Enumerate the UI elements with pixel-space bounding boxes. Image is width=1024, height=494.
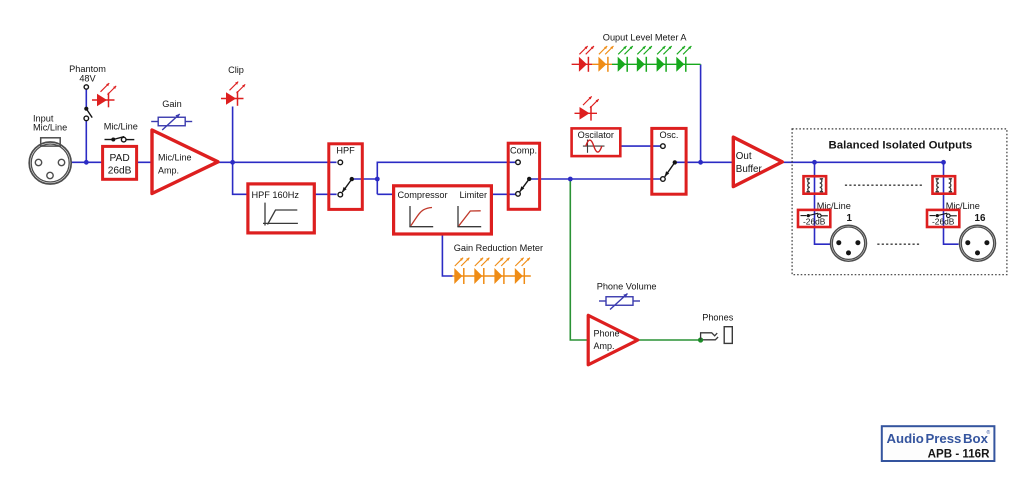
svg-text:Balanced Isolated Outputs: Balanced Isolated Outputs <box>829 139 973 151</box>
svg-text:48V: 48V <box>79 74 96 84</box>
svg-text:Out: Out <box>736 151 752 162</box>
svg-text:Mic/Line: Mic/Line <box>158 153 192 163</box>
svg-text:Phantom: Phantom <box>69 64 106 74</box>
svg-text:APB - 116R: APB - 116R <box>928 447 990 460</box>
svg-text:Oscilator: Oscilator <box>578 130 614 140</box>
svg-text:Gain: Gain <box>162 99 181 109</box>
svg-text:Comp.: Comp. <box>510 146 537 156</box>
svg-text:Mic/Line: Mic/Line <box>104 122 138 132</box>
svg-text:AudioPressBox: AudioPressBox <box>887 431 989 446</box>
svg-text:HPF: HPF <box>336 146 355 156</box>
svg-text:Amp.: Amp. <box>158 166 179 176</box>
svg-text:Gain Reduction Meter: Gain Reduction Meter <box>454 243 543 253</box>
svg-text:HPF 160Hz: HPF 160Hz <box>252 190 300 200</box>
svg-text:Phones: Phones <box>702 313 734 323</box>
svg-text:Phone: Phone <box>594 329 620 339</box>
svg-text:Clip: Clip <box>228 65 244 75</box>
svg-text:Phone Volume: Phone Volume <box>597 282 657 292</box>
svg-text:1: 1 <box>847 213 853 224</box>
svg-text:PAD: PAD <box>109 153 129 164</box>
svg-text:Osc.: Osc. <box>660 130 679 140</box>
svg-text:Buffer: Buffer <box>736 164 763 175</box>
svg-text:-26dB: -26dB <box>803 216 826 226</box>
svg-text:Limiter: Limiter <box>460 190 488 200</box>
svg-text:Ouput Level Meter A: Ouput Level Meter A <box>603 33 688 43</box>
svg-text:-26dB: -26dB <box>932 216 955 226</box>
svg-text:Mic/Line: Mic/Line <box>33 123 67 133</box>
svg-text:Compressor: Compressor <box>398 190 448 200</box>
svg-text:®: ® <box>987 429 991 436</box>
svg-text:26dB: 26dB <box>108 166 132 177</box>
svg-text:Amp.: Amp. <box>594 341 615 351</box>
svg-text:16: 16 <box>975 213 986 224</box>
